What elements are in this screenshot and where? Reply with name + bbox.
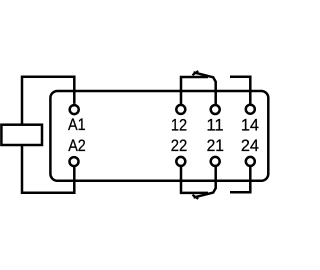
svg-text:21: 21 <box>207 136 224 155</box>
wire bottom (coil to A2) <box>22 145 74 193</box>
terminal A2 <box>70 157 79 166</box>
svg-text:A1: A1 <box>68 115 86 134</box>
svg-text:22: 22 <box>171 136 188 155</box>
svg-text:12: 12 <box>171 115 187 134</box>
contact tick (top blade tip) <box>192 71 198 75</box>
wire pin 14 stub and NO bar <box>230 77 250 104</box>
terminal 14 <box>246 105 255 114</box>
coil K <box>1 125 42 145</box>
wire pin 22 stub and NC bar <box>181 167 208 193</box>
terminal 12 <box>176 105 185 114</box>
wire pin 12 stub and NC bar <box>181 77 208 104</box>
svg-text:24: 24 <box>241 136 259 155</box>
contact blade 21-22 <box>194 167 216 198</box>
wire top (coil feed to A1) <box>22 77 74 125</box>
terminal 21 <box>211 157 220 166</box>
terminal A1 <box>70 105 79 114</box>
svg-text:A2: A2 <box>68 136 86 155</box>
terminal 11 <box>211 105 220 114</box>
relay body outline <box>50 91 268 181</box>
svg-text:14: 14 <box>241 115 259 134</box>
contact blade 11-12 <box>194 72 216 104</box>
terminal 22 <box>176 157 185 166</box>
terminal 24 <box>246 157 255 166</box>
contact tick (bottom blade tip) <box>192 195 198 199</box>
wire pin 24 stub and NO bar <box>230 167 250 193</box>
svg-text:11: 11 <box>206 115 223 134</box>
